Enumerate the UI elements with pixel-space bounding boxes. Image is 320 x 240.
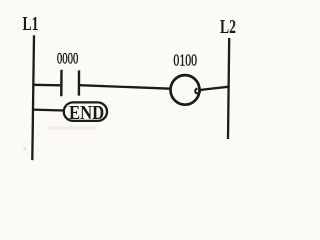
svg-text:L2: L2	[220, 16, 236, 38]
svg-text:L1: L1	[23, 13, 39, 35]
pen loop artifact at coil right	[195, 88, 200, 93]
faint scan smudge	[48, 127, 96, 130]
wire from coil to right rail	[200, 87, 229, 90]
svg-text:END: END	[69, 102, 104, 124]
END instruction box	[64, 102, 107, 121]
left power rail L1	[32, 35, 34, 160]
wire rung from left rail to contact	[33, 84, 60, 87]
right power rail L2	[228, 38, 229, 139]
contact 0000 right bar	[78, 70, 80, 95]
svg-text:0000: 0000	[57, 48, 79, 67]
contact 0000 left bar	[60, 70, 63, 96]
coil O1 circle	[171, 75, 200, 105]
wire from contact to coil	[80, 85, 171, 89]
faint scan speck	[24, 148, 27, 150]
wire from left rail to END box	[32, 108, 64, 111]
svg-text:0100: 0100	[173, 50, 197, 69]
